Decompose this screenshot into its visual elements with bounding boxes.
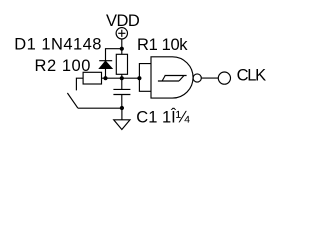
node junction dot top — [120, 47, 124, 51]
wire diode anode to node — [105, 68, 107, 78]
wire power to rail — [121, 39, 123, 49]
resistor R1 — [116, 54, 127, 74]
wire output — [201, 77, 218, 79]
schmitt hysteresis symbol — [158, 80, 179, 82]
resistor R2 — [83, 72, 101, 84]
wire R2 left lead — [76, 78, 83, 90]
ground triangle — [114, 120, 130, 130]
capacitor C1 bottom lead — [121, 95, 123, 109]
switch S1 blade — [67, 93, 78, 108]
wire node — [102, 77, 140, 79]
diode D1 cathode bar — [99, 60, 112, 62]
node junction dot diode — [103, 76, 107, 80]
wire switch bottom — [78, 107, 122, 109]
svg-text:CLK: CLK — [237, 66, 266, 84]
svg-text:R1 10k: R1 10k — [137, 36, 188, 54]
node junction dot R1 — [120, 76, 124, 80]
capacitor C1 plates — [113, 88, 130, 90]
diode D1 triangle — [100, 61, 112, 68]
wire R1 bottom — [121, 74, 123, 78]
terminal CLK pad — [218, 72, 230, 84]
wire VDD rail — [106, 49, 122, 61]
node junction dot ground — [120, 106, 124, 110]
svg-text:C1 1Î¼: C1 1Î¼ — [136, 108, 189, 127]
node junction dot gate input — [137, 76, 141, 80]
op-amp U1 nand gate body — [151, 57, 193, 98]
power symbol VDD circle — [116, 28, 127, 39]
capacitor C1 top lead — [121, 78, 123, 89]
ground stub — [121, 108, 123, 120]
wire R1 top — [121, 49, 123, 55]
wire gate input bracket — [139, 64, 151, 92]
svg-text:D1 1N4148: D1 1N4148 — [14, 36, 102, 54]
inverter bubble — [193, 74, 201, 82]
